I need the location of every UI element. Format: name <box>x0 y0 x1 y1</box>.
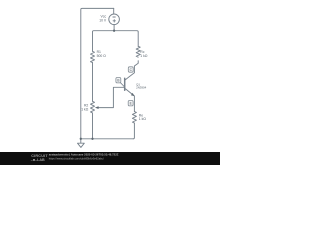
svg-text:1 kΩ: 1 kΩ <box>81 107 89 111</box>
svg-text:arataadornotto | Autosave 2025: arataadornotto | Autosave 2025-03-26T03:… <box>49 153 119 157</box>
svg-text:500 Ω: 500 Ω <box>97 54 107 58</box>
svg-text:E: E <box>130 102 132 106</box>
svg-text:1 kΩ: 1 kΩ <box>139 117 147 121</box>
svg-text:10 V: 10 V <box>99 18 107 22</box>
svg-text:B: B <box>117 79 119 83</box>
svg-text:2N3904: 2N3904 <box>136 86 147 90</box>
svg-text:https://www.circuitlab.com/c/p: https://www.circuitlab.com/c/pb95b6z9z62… <box>49 156 104 160</box>
svg-text:–■–LAB: –■–LAB <box>31 158 45 162</box>
svg-text:1 kΩ: 1 kΩ <box>140 54 148 58</box>
